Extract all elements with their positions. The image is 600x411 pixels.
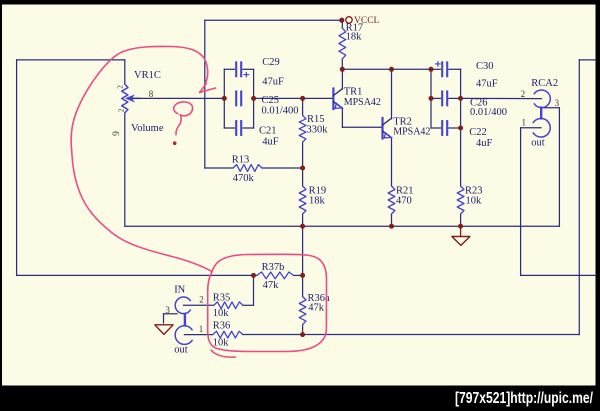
wire feedback bottom horizontal xyxy=(243,334,579,336)
wire cap block2 left rail xyxy=(430,69,432,128)
svg-text:9: 9 xyxy=(112,131,122,136)
svg-text:3: 3 xyxy=(555,98,560,108)
junction R19 rail xyxy=(300,224,305,229)
wire RCA2 pin3 vertical xyxy=(558,108,560,226)
wire R15 bottom stub xyxy=(302,142,304,168)
wire R36a bottom stub xyxy=(302,325,304,335)
left black border xyxy=(0,0,2,411)
wire R17 top stub xyxy=(341,20,343,28)
wire collector bus xyxy=(342,68,431,70)
svg-text:18k: 18k xyxy=(346,32,363,43)
resistor R36a xyxy=(299,297,306,325)
svg-text:2: 2 xyxy=(117,108,126,112)
svg-text:1: 1 xyxy=(199,324,204,334)
junction R37b right xyxy=(300,273,305,278)
power port VCCL xyxy=(339,18,344,23)
wire R15 top stub xyxy=(302,98,304,115)
wire RCA2 pin3 stub xyxy=(544,107,559,109)
svg-text:R13: R13 xyxy=(232,155,250,166)
wire R36a top stub xyxy=(302,275,304,296)
svg-text:4uF: 4uF xyxy=(262,137,279,148)
wire R13 right xyxy=(262,167,303,169)
junction R37b left xyxy=(251,273,256,278)
connector IN xyxy=(175,297,190,314)
transistor TR1 xyxy=(332,89,334,110)
wire cap block1 bottom row xyxy=(224,127,234,129)
resistor R13 xyxy=(233,165,262,172)
resistor R36 xyxy=(213,331,243,338)
junction TR2 collector xyxy=(389,67,394,72)
svg-text:IN: IN xyxy=(174,284,185,295)
wire TR1 emitter xyxy=(341,108,343,127)
svg-text:47uF: 47uF xyxy=(476,79,498,90)
wire C26 to RCA2 pin2 xyxy=(461,97,542,99)
potentiometer VR1C xyxy=(122,84,128,113)
wire input bottom horizontal xyxy=(17,274,254,276)
resistor R37b xyxy=(257,272,294,279)
svg-text:out: out xyxy=(531,138,545,149)
svg-text:10k: 10k xyxy=(213,338,230,349)
wire R13 left xyxy=(205,167,233,169)
wire C25 to TR1 base xyxy=(254,97,333,99)
svg-text:1: 1 xyxy=(522,118,527,128)
svg-text:47k: 47k xyxy=(263,280,280,291)
resistor R19 xyxy=(299,186,306,214)
svg-text:0.01/400: 0.01/400 xyxy=(470,107,507,118)
junction R36a bottom xyxy=(300,332,305,337)
wire cap block2 bottom row xyxy=(431,127,440,129)
wire RCA2 pin1 bottom xyxy=(521,274,596,276)
annotation question mark xyxy=(174,102,193,135)
wire pot bottom xyxy=(124,113,126,226)
capacitor C30 xyxy=(441,62,443,76)
svg-text:470: 470 xyxy=(396,196,412,207)
wire IN pin2 to R35 xyxy=(184,304,214,306)
svg-text:C21: C21 xyxy=(259,126,277,137)
wire top box horizontal xyxy=(205,19,342,21)
svg-text:470k: 470k xyxy=(233,173,255,184)
wire R17 bottom stub xyxy=(341,59,343,69)
right black border xyxy=(596,0,600,411)
wire ground rail xyxy=(125,225,560,227)
svg-text:MPSA42: MPSA42 xyxy=(393,127,430,138)
wire R37b right stub xyxy=(294,274,303,276)
junction C22 right xyxy=(458,126,463,131)
resistor R17 xyxy=(339,28,346,59)
svg-text:C29: C29 xyxy=(262,57,280,68)
wire input top horizontal xyxy=(17,59,125,61)
wire cap block1 left rail xyxy=(223,69,225,128)
junction block2 top left xyxy=(429,67,434,72)
annotation dot xyxy=(173,141,177,145)
svg-text:C30: C30 xyxy=(476,61,494,72)
wire IN pin1 to R36 xyxy=(184,334,212,336)
svg-text:R15: R15 xyxy=(307,114,325,125)
svg-text:MPSA42: MPSA42 xyxy=(344,97,381,108)
ground at IN xyxy=(155,325,173,335)
wire R35 riser xyxy=(253,275,255,305)
wire R37b left stub xyxy=(254,274,258,276)
junction R13 R15 R19 xyxy=(300,166,305,171)
wire RCA2 pin1 stub xyxy=(521,127,541,129)
bottom black banner xyxy=(0,386,600,411)
wire feedback top right xyxy=(579,59,595,61)
junction C25 right xyxy=(251,96,256,101)
svg-text:2: 2 xyxy=(199,295,204,305)
svg-text:8: 8 xyxy=(149,89,154,99)
svg-text:18k: 18k xyxy=(309,196,326,207)
junction R21 rail xyxy=(389,224,394,229)
wire rail to R37b xyxy=(302,226,304,275)
annotation loop tail xyxy=(211,350,236,358)
svg-text:C22: C22 xyxy=(469,127,487,138)
wire cap block1 right rail xyxy=(253,69,255,128)
svg-text:10k: 10k xyxy=(466,196,483,207)
svg-text:47k: 47k xyxy=(308,302,325,313)
ground xyxy=(460,226,462,236)
junction C25 left xyxy=(222,96,227,101)
wire IN pin3 xyxy=(164,313,178,315)
wire input left vertical xyxy=(16,60,18,276)
svg-text:Volume: Volume xyxy=(131,123,164,134)
svg-text:2: 2 xyxy=(115,85,124,89)
svg-text:10k: 10k xyxy=(213,308,230,319)
svg-text:R37b: R37b xyxy=(262,262,285,273)
wire TR2 collector xyxy=(391,69,393,118)
junction block2 mid right xyxy=(458,96,463,101)
wire TR1 emitter to TR2 base xyxy=(342,126,382,128)
wire TR2 emitter xyxy=(391,138,393,186)
wire RCA2 pin1 vertical xyxy=(520,128,522,276)
junction block2 mid left xyxy=(429,96,434,101)
top black border xyxy=(0,0,600,5)
junction R15 top xyxy=(300,96,305,101)
svg-text:330k: 330k xyxy=(307,125,329,136)
capacitor C29 xyxy=(235,62,237,76)
wire top box left vertical xyxy=(204,20,206,168)
connector RCA2 xyxy=(534,90,550,108)
wire R35 to riser xyxy=(243,304,254,306)
wire TR1 collector xyxy=(341,69,343,89)
svg-text:VCCL: VCCL xyxy=(354,16,380,26)
resistor R23 xyxy=(457,186,464,214)
svg-text:R35: R35 xyxy=(213,292,231,303)
capacitor C21 xyxy=(235,121,237,135)
wire R19 top stub xyxy=(302,168,304,186)
wire cap block1 top row xyxy=(224,68,234,70)
capacitor C26 xyxy=(441,92,443,106)
junction R23 rail xyxy=(458,224,463,229)
wire R23 bottom stub xyxy=(460,214,462,226)
svg-text:4uF: 4uF xyxy=(476,138,493,149)
annotation loop xyxy=(208,254,327,351)
svg-text:out: out xyxy=(174,345,188,356)
wire R19 bottom stub xyxy=(302,214,304,226)
svg-text:2: 2 xyxy=(521,89,526,99)
wire cap block2 mid row xyxy=(431,97,440,99)
wire pot top xyxy=(124,60,126,84)
resistor R21 xyxy=(388,186,395,214)
junction TR1 collector xyxy=(340,67,345,72)
wire wiper to C25 xyxy=(131,97,224,99)
svg-text:R36: R36 xyxy=(213,321,231,332)
resistor R35 xyxy=(214,302,243,309)
annotation arrowhead xyxy=(200,84,216,93)
wire R21 bottom stub xyxy=(391,214,393,226)
svg-text:VR1C: VR1C xyxy=(134,70,161,81)
svg-text:47uF: 47uF xyxy=(262,77,284,88)
annotation long curve xyxy=(71,46,212,271)
resistor R15 xyxy=(299,115,306,142)
transistor TR2 xyxy=(381,118,383,139)
wire feedback vertical right xyxy=(578,60,580,335)
svg-text:[797x521]http://upic.me/: [797x521]http://upic.me/ xyxy=(455,390,593,407)
wire cap block2 top row xyxy=(431,68,440,70)
capacitor C25 xyxy=(235,92,237,106)
svg-text:0.01/400: 0.01/400 xyxy=(262,106,299,117)
svg-text:C25: C25 xyxy=(262,95,280,106)
svg-text:RCA2: RCA2 xyxy=(531,78,558,89)
wire cap block2 right rail xyxy=(460,69,462,128)
junction at VCCL xyxy=(339,18,344,23)
capacitor C22 xyxy=(441,121,443,135)
svg-text:3: 3 xyxy=(165,305,170,315)
wire C22 to R23 xyxy=(460,128,462,186)
